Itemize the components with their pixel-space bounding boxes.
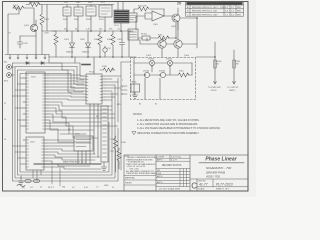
- connector J104 inner pin ticks: [26, 140, 29, 167]
- wire fan J103 row 7: [48, 93, 83, 94]
- title block drawing title text: [205, 166, 231, 179]
- label box TO METER: [128, 29, 138, 40]
- resistor R105: [111, 31, 115, 57]
- wire fan J103 row 16: [48, 120, 94, 130]
- svg-text:PL77-2023: PL77-2023: [216, 182, 233, 186]
- resistor R102: [29, 3, 40, 7]
- wire fan J103 row 14: [48, 114, 101, 122]
- wire risers: [134, 58, 192, 100]
- wire bus join: [49, 55, 62, 58]
- svg-text:1: 1: [122, 80, 123, 82]
- svg-text:REVISIONS: REVISIONS: [207, 4, 219, 6]
- wire collector: [35, 20, 37, 36]
- svg-text:SCALE: SCALE: [198, 188, 205, 191]
- svg-text:IN R: IN R: [4, 81, 9, 83]
- component CR105: [82, 64, 90, 66]
- stub arrowheads: [9, 58, 46, 60]
- svg-text:1N4002: 1N4002: [82, 52, 90, 54]
- resistor R120: [100, 68, 115, 72]
- svg-text:DS104: DS104: [159, 71, 166, 73]
- svg-text:DS103: DS103: [143, 71, 150, 73]
- wire harness branch 3: [74, 70, 84, 84]
- wire P101 bottom drops: [90, 104, 98, 157]
- wire lamp row 1: [134, 62, 192, 64]
- svg-text:100: 100: [99, 29, 102, 31]
- wire upper rail: [26, 4, 62, 6]
- wire drops K102 to bus: [78, 151, 90, 164]
- svg-text:W5: W5: [68, 129, 71, 131]
- wire fan J103 row 8: [48, 96, 83, 97]
- transformer T101 dark cluster: [114, 10, 129, 23]
- svg-text:SHEET 1 OF 1: SHEET 1 OF 1: [216, 189, 230, 191]
- svg-text:3. ALL VOLTAGES MEASURED WITH: 3. ALL VOLTAGES MEASURED WITH RESPECT TO…: [137, 127, 221, 130]
- transistor Q101: [30, 24, 37, 31]
- wire fan J104 row 4: [47, 149, 90, 151]
- svg-text:2. ALL CAPACITOR VALUES ARE IN: 2. ALL CAPACITOR VALUES ARE IN MICROFARA…: [137, 123, 198, 126]
- svg-text:REMOVE ALL BURRS AND SHARP: REMOVE ALL BURRS AND SHARP: [127, 172, 158, 175]
- wire riser dashed-box feeds: [121, 61, 131, 63]
- lamp DS103: [144, 72, 149, 77]
- svg-text:2W: 2W: [236, 64, 239, 66]
- svg-text:NOTES:: NOTES:: [133, 113, 143, 116]
- resistor R103 vertical: [40, 8, 44, 31]
- wire: [20, 36, 36, 57]
- wire harness loop 4: [20, 74, 109, 173]
- wire harness branch 1: [80, 63, 84, 76]
- svg-text:WB: WB: [237, 7, 241, 9]
- wire fan J103 row 18: [48, 126, 98, 138]
- fuse F102: [33, 179, 39, 182]
- relay K101: [99, 5, 112, 17]
- svg-text:MAIN PWB ASSY 41-77: MAIN PWB ASSY 41-77: [63, 161, 87, 164]
- wire fan J103 row 11: [48, 105, 112, 110]
- title block Phase Linear logo: [199, 157, 244, 163]
- wire: [24, 8, 34, 24]
- svg-text:CONTR: CONTR: [157, 157, 165, 159]
- revision table text: [187, 4, 241, 17]
- svg-text:5: 5: [122, 94, 123, 96]
- phono jack J102: [7, 73, 12, 78]
- wire harness branch 2: [77, 67, 84, 81]
- svg-text:41-77: 41-77: [199, 183, 208, 187]
- svg-text:Phase Linear: Phase Linear: [205, 157, 237, 163]
- wire harness loop 2: [15, 67, 115, 179]
- switch box S103: [86, 6, 96, 16]
- diode D102: [86, 31, 91, 57]
- svg-text:FINISH: FINISH: [125, 183, 132, 185]
- svg-text:3-1-77: 3-1-77: [171, 160, 178, 162]
- lamp DS104: [160, 72, 165, 77]
- wire: [41, 5, 43, 55]
- svg-text:GND: GND: [104, 185, 109, 187]
- svg-text:12: 12: [4, 103, 6, 105]
- wire harness branch 4: [71, 74, 84, 89]
- connector P101: [86, 74, 102, 104]
- wire harness loop 1: [13, 63, 119, 181]
- svg-text:W2: W2: [96, 116, 99, 118]
- wire tie J103 left pins: [13, 78, 24, 164]
- junction dots: [66, 30, 68, 32]
- connector J103: [26, 72, 45, 133]
- wire drops below J104: [33, 166, 60, 186]
- junction dots lamp rows: [151, 65, 152, 66]
- wire harness loop 3: [18, 70, 113, 175]
- svg-text:3: 3: [122, 87, 123, 89]
- bus lower-left with test stubs: [5, 55, 49, 58]
- wire branch: [47, 5, 60, 32]
- transistor Q102: [172, 14, 180, 22]
- bus heavy rail: [34, 163, 101, 165]
- wire fan J104 row 6: [47, 155, 100, 157]
- wire fan J103 row 15: [48, 117, 118, 126]
- svg-text:R110 47K: R110 47K: [138, 6, 147, 8]
- wire jack leads: [11, 67, 14, 75]
- label box TO INPUT: [128, 13, 137, 22]
- svg-text:C: C: [191, 182, 197, 191]
- bus mid rail: [60, 30, 133, 32]
- svg-text:APPD: APPD: [157, 159, 163, 162]
- connector J103 pins left: [23, 78, 26, 126]
- svg-text:INDICATES CONNECTION TO MAIN P: INDICATES CONNECTION TO MAIN PWB ASSEMBL…: [137, 132, 200, 135]
- svg-text:CHK: CHK: [157, 173, 162, 175]
- svg-text:16: 16: [4, 139, 6, 141]
- wire output: [164, 9, 172, 16]
- switch box S101: [63, 7, 71, 16]
- revision table: [186, 2, 244, 16]
- svg-text:TO PWR SUP: TO PWR SUP: [208, 87, 221, 89]
- svg-text:.01: .01: [117, 29, 120, 31]
- wire top-left feed: [8, 8, 19, 54]
- ground: [132, 92, 138, 98]
- wire fan J103 row 1: [48, 75, 83, 76]
- wire lamp row 2: [134, 74, 192, 76]
- wire drops to bus: [67, 16, 121, 31]
- lamp DS102: [167, 60, 172, 65]
- title block frame: [124, 155, 248, 191]
- front panel dashed enclosure: [131, 58, 196, 100]
- wire feed right B: [233, 50, 235, 83]
- transistor Q104: [174, 40, 182, 48]
- diode CR101: [26, 62, 29, 65]
- svg-text:14: 14: [4, 119, 6, 121]
- resistor R106 vertical: [54, 31, 58, 57]
- scan grain overlay: [0, 0, 256, 197]
- resistor R111: [158, 36, 169, 40]
- svg-text:APPD: APPD: [157, 181, 163, 184]
- svg-text:+78V E: +78V E: [210, 90, 217, 92]
- meter M101: [131, 84, 140, 92]
- relay module K102: [74, 136, 93, 151]
- svg-text:ASSY 700: ASSY 700: [205, 175, 220, 179]
- transistor Q105: [103, 48, 107, 52]
- connector J104 pins right: [44, 140, 47, 167]
- svg-text:REVISED PER ECO 1107: REVISED PER ECO 1107: [192, 11, 218, 13]
- connector J103 pins right: [45, 75, 48, 129]
- svg-text:RT101: RT101: [141, 34, 148, 36]
- connector J104: [26, 137, 44, 170]
- svg-text:M101: M101: [132, 82, 138, 84]
- svg-text:470: 470: [64, 29, 67, 31]
- junction: [42, 30, 56, 32]
- junction dot: [214, 56, 216, 58]
- wire stub labels right: [121, 86, 127, 94]
- svg-text:1. ALL RESISTORS ARE 1/4W, 5%,: 1. ALL RESISTORS ARE 1/4W, 5%, VALUES IN…: [137, 119, 200, 122]
- svg-text:DS101: DS101: [148, 59, 155, 61]
- wire fan P101 to bundle: [105, 76, 121, 100]
- svg-text:REVISED PER ECO 1047 + 1052: REVISED PER ECO 1047 + 1052: [192, 7, 226, 9]
- wire mid row: [138, 22, 176, 38]
- svg-text:2X: 2X: [177, 2, 182, 6]
- svg-text:DS102: DS102: [166, 59, 173, 61]
- wire fan J104 row 10: [47, 167, 101, 169]
- svg-text:E2: E2: [155, 104, 157, 106]
- wire fan J103 row 10: [48, 102, 112, 106]
- wire fan J103 row 3: [48, 81, 83, 82]
- resistor R131 vertical: [117, 148, 121, 164]
- capacitor C102: [120, 31, 125, 57]
- wire: [116, 152, 120, 172]
- svg-text:+60V: +60V: [44, 33, 49, 35]
- wire fan J104 row 2: [47, 142, 74, 144]
- svg-text:E1: E1: [139, 104, 141, 106]
- svg-text:WB: WB: [237, 14, 241, 16]
- title block number row: [190, 179, 248, 187]
- svg-text:R9 2.2: R9 2.2: [48, 187, 55, 189]
- connector P101 pins right: [102, 76, 105, 100]
- title block middle signature grid: [156, 155, 190, 187]
- wire fan J104 row 5: [47, 152, 95, 154]
- wire fan J103 row 5: [48, 87, 83, 88]
- wire fan J103 row 17: [48, 123, 86, 134]
- note 4 flag symbol: [132, 132, 136, 135]
- connector P101 pins left: [83, 76, 86, 100]
- fuse F101: [25, 179, 31, 182]
- wire fan J103 row 9: [48, 99, 83, 100]
- diode CR102: [41, 62, 44, 65]
- svg-text:BR1: BR1: [117, 104, 121, 106]
- drawing border frame: [3, 2, 249, 192]
- terminal arrow B: [233, 82, 236, 85]
- resistor R101: [13, 6, 24, 10]
- wire inputs: [136, 13, 152, 30]
- terminal arrow A: [214, 82, 217, 85]
- wire: [162, 22, 197, 57]
- phono jack J101: [7, 65, 12, 70]
- lamp DS101: [149, 60, 154, 65]
- wire fan J103 row 6: [48, 90, 83, 91]
- switch box S102: [74, 7, 83, 16]
- svg-text:RECORD STATUS: RECORD STATUS: [162, 164, 182, 167]
- resistor R104: [98, 31, 102, 57]
- wire fan J104 row 1: [47, 139, 74, 141]
- wire fan J103 row 2: [48, 78, 83, 79]
- svg-text:1N4002: 1N4002: [66, 52, 74, 54]
- title block left tolerance notes panel: [126, 157, 158, 175]
- thermistor RT101: [142, 36, 150, 40]
- wire bundle vertical right: [112, 62, 121, 170]
- wire fan J104 row 3: [47, 145, 74, 147]
- wire: [128, 31, 130, 57]
- wire fan J104 row 7: [47, 158, 95, 160]
- svg-text:SCHEMATIC - 700: SCHEMATIC - 700: [206, 166, 231, 170]
- wire fan J104 row 9: [47, 164, 90, 166]
- wire harness branch 5: [49, 57, 83, 92]
- ground chassis bottom-left: [17, 176, 25, 187]
- wire top rail: [62, 5, 114, 8]
- svg-text:TO OUTPUT: TO OUTPUT: [227, 87, 239, 89]
- resistor R140 body: [214, 60, 216, 68]
- resistor R115: [178, 73, 189, 77]
- svg-text:PWB C: PWB C: [229, 90, 236, 92]
- svg-text:DO NOT SCALE DWG: DO NOT SCALE DWG: [159, 187, 180, 190]
- connector J103 inner pin ticks: [26, 75, 29, 129]
- capacitor C101: [18, 36, 23, 48]
- op-amp U101: [152, 11, 164, 21]
- svg-text:R102 2.2K: R102 2.2K: [29, 2, 39, 4]
- bus lower rail: [62, 56, 136, 58]
- wire: [178, 8, 197, 48]
- svg-text:REVISED PER ECO 1163: REVISED PER ECO 1163: [192, 14, 218, 16]
- wire riser to bus: [75, 57, 94, 74]
- svg-text:WB: WB: [237, 11, 241, 13]
- wire fan J103 row 19: [48, 129, 90, 142]
- wire fan J103 row 13: [48, 111, 115, 118]
- resistor R130 vertical: [114, 136, 118, 152]
- connector J104 pins left: [23, 140, 26, 164]
- wire: [118, 2, 123, 10]
- diode D101: [70, 31, 75, 57]
- wire fan J103 row 12: [48, 108, 115, 114]
- ground mid: [101, 162, 107, 171]
- notes block: [133, 113, 221, 135]
- paper background: [0, 0, 256, 197]
- resistor R110 feedback: [134, 7, 164, 13]
- transistor Q103: [158, 40, 166, 48]
- svg-text:APPD: APPD: [157, 175, 163, 178]
- svg-text:2-4-77 eng: 2-4-77 eng: [171, 157, 181, 159]
- resistor R141 body: [233, 60, 235, 68]
- terminal strip TB101: [101, 106, 108, 162]
- wire feed right A: [196, 42, 215, 83]
- svg-text:MATERIAL: MATERIAL: [125, 177, 136, 180]
- wire fan J103 row 4: [48, 84, 83, 85]
- wire fan J104 row 8: [47, 161, 101, 164]
- wire lower row: [138, 38, 174, 44]
